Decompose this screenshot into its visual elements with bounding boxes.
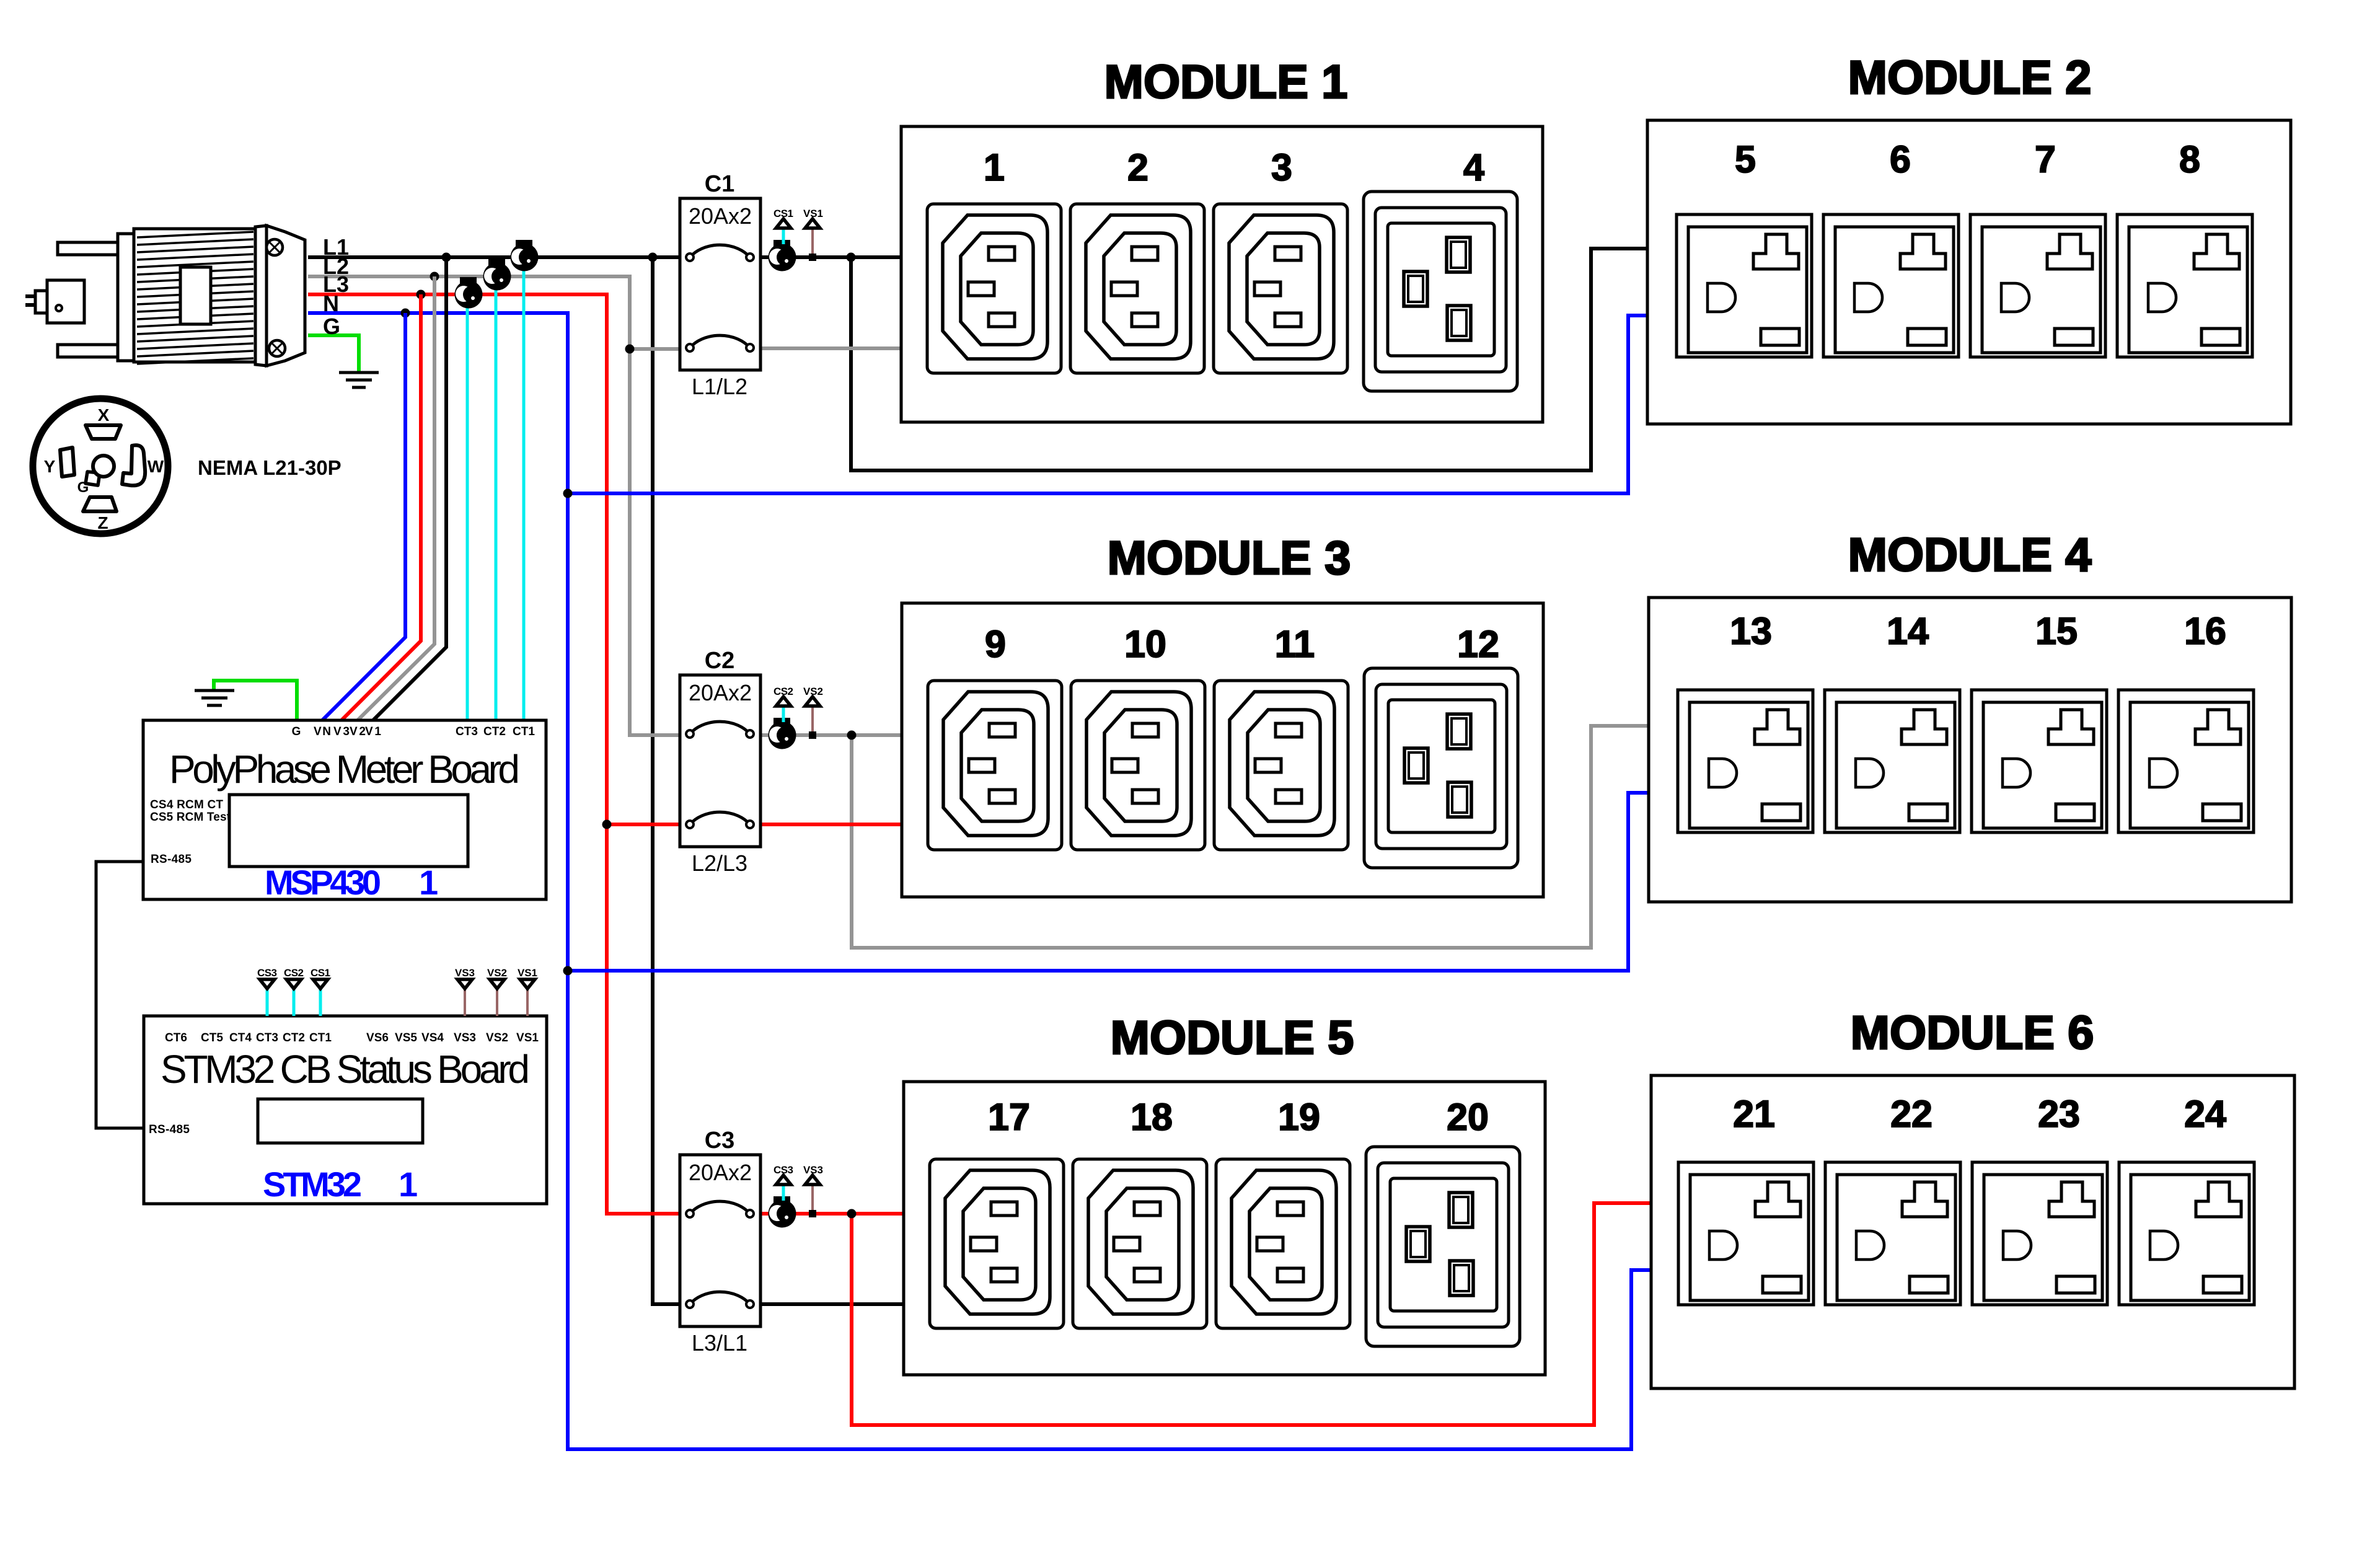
svg-text:VS2: VS2 — [803, 686, 823, 697]
svg-text:22: 22 — [1890, 1093, 1933, 1135]
svg-text:STM32 CB Status Board: STM32 CB Status Board — [161, 1047, 530, 1092]
svg-text:13: 13 — [1730, 610, 1772, 652]
svg-text:C3: C3 — [705, 1128, 735, 1154]
svg-text:3: 3 — [1271, 146, 1292, 188]
svg-text:VS4: VS4 — [421, 1031, 444, 1044]
svg-text:VS2: VS2 — [487, 967, 507, 979]
svg-text:C1: C1 — [705, 171, 735, 197]
svg-text:1: 1 — [984, 146, 1005, 188]
svg-text:CT5: CT5 — [201, 1031, 223, 1044]
svg-text:CT2: CT2 — [283, 1031, 305, 1044]
svg-text:CS1: CS1 — [773, 208, 793, 219]
svg-text:VS5: VS5 — [395, 1031, 417, 1044]
svg-text:CS5 RCM Test: CS5 RCM Test — [150, 811, 231, 824]
svg-text:CT1: CT1 — [513, 725, 535, 738]
svg-text:CS2: CS2 — [284, 967, 304, 979]
svg-text:MODULE 2: MODULE 2 — [1848, 51, 2092, 104]
svg-text:20: 20 — [1447, 1096, 1489, 1138]
svg-text:23: 23 — [2038, 1093, 2080, 1135]
svg-text:Y: Y — [44, 457, 56, 476]
svg-text:MSP430: MSP430 — [265, 863, 381, 902]
svg-text:1: 1 — [399, 1165, 418, 1204]
svg-text:10: 10 — [1124, 623, 1166, 665]
svg-text:NEMA L21-30P: NEMA L21-30P — [198, 456, 342, 479]
svg-text:15: 15 — [2035, 610, 2078, 652]
svg-text:20Ax2: 20Ax2 — [689, 1160, 752, 1185]
svg-text:RS-485: RS-485 — [149, 1123, 190, 1136]
svg-text:VN: VN — [314, 725, 331, 738]
svg-text:L2/L3: L2/L3 — [692, 850, 747, 876]
svg-text:19: 19 — [1278, 1096, 1320, 1138]
svg-text:CS3: CS3 — [773, 1164, 793, 1176]
svg-text:MODULE 6: MODULE 6 — [1851, 1007, 2094, 1059]
svg-text:VS6: VS6 — [366, 1031, 389, 1044]
svg-text:G: G — [292, 725, 301, 738]
svg-text:11: 11 — [1275, 623, 1315, 665]
svg-text:L1/L2: L1/L2 — [692, 374, 747, 399]
svg-text:VS1: VS1 — [803, 208, 823, 219]
svg-text:MODULE 4: MODULE 4 — [1848, 529, 2092, 581]
svg-text:CT3: CT3 — [456, 725, 478, 738]
svg-text:9: 9 — [985, 623, 1006, 665]
svg-text:CS2: CS2 — [773, 686, 793, 697]
svg-text:6: 6 — [1890, 138, 1911, 180]
svg-text:L3/L1: L3/L1 — [692, 1330, 747, 1356]
svg-text:24: 24 — [2184, 1093, 2226, 1135]
svg-text:CT2: CT2 — [483, 725, 506, 738]
svg-text:N: N — [323, 291, 339, 316]
svg-text:MODULE 5: MODULE 5 — [1111, 1012, 1354, 1064]
svg-text:12: 12 — [1457, 623, 1499, 665]
svg-text:C2: C2 — [705, 648, 735, 674]
svg-text:PolyPhase Meter Board: PolyPhase Meter Board — [169, 747, 520, 792]
svg-text:7: 7 — [2035, 138, 2056, 180]
svg-text:CT1: CT1 — [309, 1031, 332, 1044]
svg-text:W: W — [148, 457, 164, 476]
svg-text:RS-485: RS-485 — [151, 853, 192, 866]
svg-text:VS3: VS3 — [803, 1164, 823, 1176]
svg-text:VS1: VS1 — [516, 1031, 539, 1044]
svg-text:CS1: CS1 — [311, 967, 330, 979]
svg-text:14: 14 — [1887, 610, 1929, 652]
svg-text:Z: Z — [97, 513, 108, 532]
svg-text:2: 2 — [1127, 146, 1148, 188]
svg-text:5: 5 — [1735, 138, 1756, 180]
svg-text:CS4 RCM CT: CS4 RCM CT — [150, 798, 223, 811]
svg-text:G: G — [77, 479, 89, 496]
svg-text:VS2: VS2 — [486, 1031, 508, 1044]
svg-text:21: 21 — [1733, 1093, 1775, 1135]
svg-text:8: 8 — [2179, 138, 2200, 180]
svg-text:4: 4 — [1463, 146, 1484, 188]
svg-text:X: X — [98, 405, 110, 425]
svg-text:20Ax2: 20Ax2 — [689, 680, 752, 705]
svg-text:VS1: VS1 — [518, 967, 537, 979]
svg-text:CS3: CS3 — [257, 967, 277, 979]
svg-text:VS3: VS3 — [454, 1031, 476, 1044]
svg-text:17: 17 — [988, 1096, 1030, 1138]
svg-text:G: G — [323, 314, 340, 339]
svg-text:MODULE 3: MODULE 3 — [1108, 532, 1351, 585]
svg-text:18: 18 — [1130, 1096, 1173, 1138]
svg-text:CT3: CT3 — [256, 1031, 278, 1044]
svg-text:MODULE 1: MODULE 1 — [1104, 56, 1348, 108]
svg-text:VS3: VS3 — [455, 967, 475, 979]
svg-text:1: 1 — [419, 863, 438, 902]
svg-text:CT6: CT6 — [165, 1031, 187, 1044]
svg-text:16: 16 — [2184, 610, 2226, 652]
svg-text:CT4: CT4 — [229, 1031, 252, 1044]
svg-text:STM32: STM32 — [263, 1165, 362, 1204]
svg-text:20Ax2: 20Ax2 — [689, 203, 752, 229]
